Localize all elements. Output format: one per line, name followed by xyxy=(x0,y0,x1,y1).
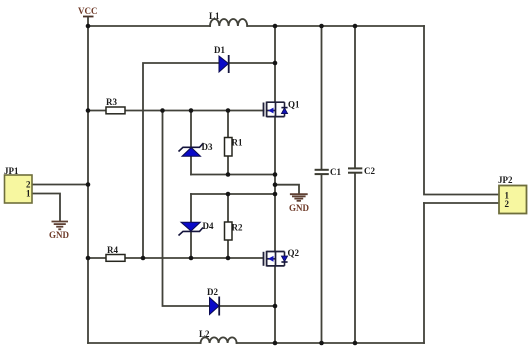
node D1 cathode / center rail xyxy=(273,61,278,66)
svg-text:C2: C2 xyxy=(364,166,375,176)
connector JP1 xyxy=(4,166,32,203)
resistor R3 xyxy=(106,97,125,114)
wire node row under R1/D3 xyxy=(191,174,275,176)
node ground tap xyxy=(273,182,278,187)
node R1 bottom row xyxy=(226,172,231,177)
svg-text:GND: GND xyxy=(289,203,310,213)
wire top rail right segment xyxy=(247,25,424,27)
ground under JP1 xyxy=(52,222,69,230)
node D2 cathode / center rail xyxy=(273,304,278,309)
svg-text:JP2: JP2 xyxy=(498,175,513,185)
node bottom rail / C1 xyxy=(319,341,324,346)
wire D3 branch vertical xyxy=(190,111,192,148)
node left rail / R3 xyxy=(86,108,91,113)
svg-text:L1: L1 xyxy=(209,11,220,21)
node top rail / center rail xyxy=(273,24,278,29)
wire long vertical from R3 net down to D2 anode xyxy=(163,111,210,307)
wire R4 right lead to Q2 gate xyxy=(125,257,263,259)
inductor L2 xyxy=(201,337,237,343)
node bottom rail / center rail xyxy=(273,341,278,346)
node R3 net / D3 xyxy=(189,108,194,113)
wire bottom rail left segment xyxy=(88,342,201,344)
capacitor C1 leads xyxy=(321,26,323,169)
diode D2 xyxy=(207,287,219,316)
svg-text:D3: D3 xyxy=(202,142,213,152)
node row2 / center rail xyxy=(273,192,278,197)
wire R3 left lead xyxy=(88,110,106,112)
svg-text:L2: L2 xyxy=(199,329,210,339)
wire JP2 pin 2 horizontal xyxy=(424,202,499,204)
wire bottom rail right segment xyxy=(237,342,424,344)
resistor R4 xyxy=(106,245,125,261)
resistor R1 xyxy=(225,138,243,157)
svg-text:Q1: Q1 xyxy=(288,100,300,110)
wire R4 left lead xyxy=(88,257,106,259)
wire ground tap from switch node xyxy=(275,185,299,194)
node left rail / R4 xyxy=(86,256,91,261)
transistor Q2 xyxy=(264,248,300,267)
node top rail / C1 xyxy=(319,24,324,29)
svg-text:JP1: JP1 xyxy=(4,166,19,176)
wire center rail middle (Q1 source to Q2 drain) xyxy=(274,117,276,252)
inductor L1 xyxy=(210,19,247,26)
svg-text:C1: C1 xyxy=(330,167,341,177)
wire D1 anode left + vertical drop to R4 net xyxy=(143,63,219,258)
svg-text:GND: GND xyxy=(49,230,70,240)
zener diode D4 xyxy=(179,221,214,236)
capacitor C1 plates xyxy=(315,170,329,174)
svg-text:VCC: VCC xyxy=(78,6,98,16)
node row / center rail xyxy=(273,172,278,177)
svg-text:D2: D2 xyxy=(207,287,218,297)
wire D4 upper lead xyxy=(190,194,192,222)
wire R1 branch vertical xyxy=(227,111,229,138)
node junction dots xyxy=(86,24,358,346)
wire center rail bottom (Q2 source) xyxy=(274,266,276,343)
zener diode D3 xyxy=(179,142,213,156)
node VCC / left rail xyxy=(86,24,91,29)
capacitor C2 leads xyxy=(354,26,356,168)
wire R3 right lead to Q1 gate xyxy=(125,110,264,112)
connector JP2 xyxy=(498,175,527,214)
wire JP1 pin2 to left rail xyxy=(32,184,88,186)
svg-text:1: 1 xyxy=(26,189,31,199)
wire D3 lower lead xyxy=(190,157,192,175)
capacitor C2 plates xyxy=(348,168,362,172)
wire left rail xyxy=(87,26,89,343)
wire R1 lower lead xyxy=(227,156,229,175)
svg-text:R4: R4 xyxy=(107,245,118,255)
node R4 net / D1 line xyxy=(141,256,146,261)
wire top rail left segment xyxy=(88,25,210,27)
node bottom rail / C2 xyxy=(353,341,358,346)
node R3 net / R1 xyxy=(226,108,231,113)
node R4 net / D4 xyxy=(189,256,194,261)
node top rail / C2 xyxy=(353,24,358,29)
node R4 net / R2 xyxy=(226,256,231,261)
wire R2 lower lead xyxy=(227,240,229,258)
svg-text:R1: R1 xyxy=(232,138,243,148)
node R3 net / long line xyxy=(160,108,165,113)
node left rail / JP1 xyxy=(86,182,91,187)
svg-text:D4: D4 xyxy=(203,221,214,231)
wire D2 cathode to center rail xyxy=(220,305,276,307)
svg-text:D1: D1 xyxy=(214,45,225,55)
wire right side down from JP2 pin 2 to bottom rail xyxy=(423,203,425,343)
transistor Q1 xyxy=(264,100,301,118)
diode D1 xyxy=(214,45,229,73)
wire JP1 pin1 to ground xyxy=(32,194,60,221)
wire node row above D4/R2 xyxy=(191,193,275,195)
wire right side down to JP2 pin 1 xyxy=(424,26,499,195)
svg-text:Q2: Q2 xyxy=(288,248,300,258)
node R2 top row xyxy=(226,192,231,197)
wire D1 cathode to center rail xyxy=(229,62,275,64)
ground at switch node xyxy=(290,194,308,201)
wire center rail top (Q1 drain) xyxy=(274,26,276,102)
VCC power symbol xyxy=(78,6,98,26)
wire D4 lower lead xyxy=(190,232,192,259)
svg-text:R2: R2 xyxy=(232,223,243,233)
resistor R2 xyxy=(225,222,243,240)
svg-text:2: 2 xyxy=(505,199,510,209)
svg-text:R3: R3 xyxy=(106,97,117,107)
wire R2 upper lead xyxy=(227,194,229,222)
